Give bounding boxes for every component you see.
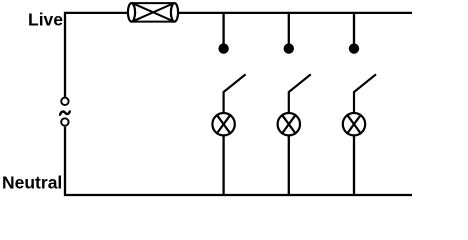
fuse	[128, 3, 178, 22]
svg-text:Live: Live	[28, 10, 63, 30]
wire: left drop lower segment and Neutral rail	[64, 127, 412, 195]
node Live label	[28, 10, 63, 30]
lamp L1	[212, 113, 234, 135]
wire: branch 3 stub from Live rail	[353, 13, 355, 44]
wire: branch 3 to Neutral rail	[353, 136, 355, 195]
switch S2 fixed contact (dot)	[284, 43, 294, 53]
wire: branch 1 stub from Live rail	[222, 13, 224, 44]
lamp L3	[343, 113, 365, 135]
wire: branch 2 to Neutral rail	[288, 136, 290, 195]
switch S2 (open blade)	[289, 74, 311, 112]
lamp L2	[278, 113, 300, 135]
switch S3 fixed contact (dot)	[349, 43, 359, 53]
switch S3 (open blade)	[354, 74, 376, 112]
node Neutral label	[2, 173, 62, 193]
svg-text:Neutral: Neutral	[2, 173, 62, 193]
AC supply source	[60, 98, 70, 126]
wire: branch 2 stub from Live rail	[288, 13, 290, 44]
wire: branch 1 to Neutral rail	[222, 136, 224, 195]
switch S1 fixed contact (dot)	[218, 43, 228, 53]
wire: Live rail left segment and left drop to AC source	[65, 13, 128, 97]
wire: Live rail right of fuse	[178, 12, 412, 14]
switch S1 (open blade)	[224, 74, 246, 112]
